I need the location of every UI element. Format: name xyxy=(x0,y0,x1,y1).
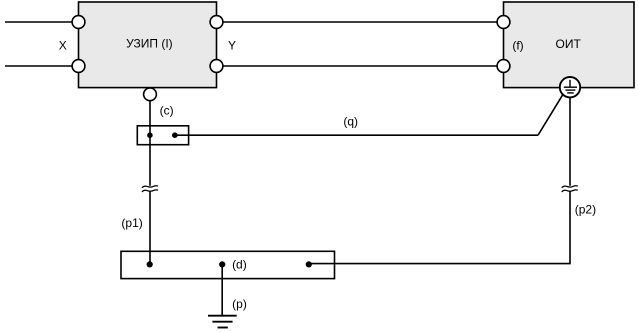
svg-text:ОИТ: ОИТ xyxy=(556,37,582,51)
junction dot on bar c right xyxy=(172,132,178,138)
wire p2 upper segment xyxy=(569,97,571,186)
ground symbol xyxy=(208,316,237,328)
wire p2 lower segment and horizontal to bar xyxy=(309,191,570,264)
terminal Y1 xyxy=(210,16,223,29)
terminal X2 xyxy=(72,60,85,73)
terminal f2 xyxy=(497,60,510,73)
svg-text:Y: Y xyxy=(228,38,236,52)
terminal c xyxy=(144,88,157,101)
svg-text:X: X xyxy=(59,39,67,53)
svg-text:(p2): (p2) xyxy=(575,203,596,217)
wire Y bottom xyxy=(217,65,504,67)
svg-text:УЗИП (I): УЗИП (I) xyxy=(126,36,173,50)
terminal f1 xyxy=(497,16,510,29)
svg-text:(p): (p) xyxy=(232,297,247,311)
bonding bar (c) xyxy=(137,126,188,145)
break symbol p2 xyxy=(562,186,578,192)
wire p1 lower segment xyxy=(149,191,151,265)
terminal X1 xyxy=(72,16,85,29)
junction dot on bar c left xyxy=(147,132,153,138)
terminal Y2 xyxy=(210,60,223,73)
wire p ground xyxy=(221,264,223,315)
svg-text:(d): (d) xyxy=(232,257,247,271)
wire X top xyxy=(5,21,75,23)
PE terminal of ОИТ xyxy=(560,77,580,97)
wire Y top xyxy=(217,21,504,23)
break symbol p1 xyxy=(142,186,158,192)
earthing bar (d) xyxy=(121,251,335,278)
wire q horizontal xyxy=(175,134,538,136)
svg-text:(p1): (p1) xyxy=(121,216,142,230)
wire q diagonal xyxy=(538,94,563,135)
svg-text:(q): (q) xyxy=(343,114,358,128)
block УЗИП (I) xyxy=(79,2,217,88)
junction dot bar d left xyxy=(147,261,153,267)
block ОИТ xyxy=(504,2,635,88)
svg-text:(c): (c) xyxy=(160,104,174,118)
wire c upper segment xyxy=(149,94,151,186)
wire X bottom xyxy=(5,65,75,67)
svg-text:(f): (f) xyxy=(512,38,523,52)
junction dot bar d middle xyxy=(219,261,225,267)
junction dot bar d right xyxy=(306,261,312,267)
